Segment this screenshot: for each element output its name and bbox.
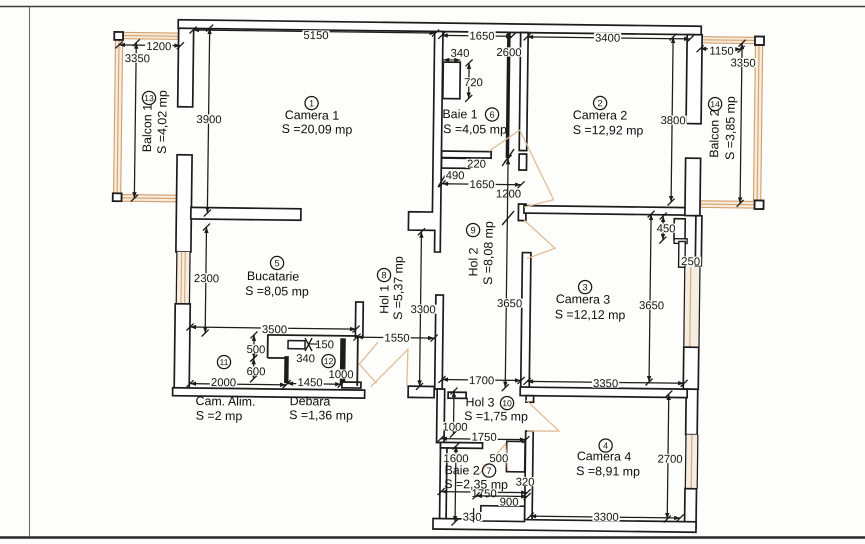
svg-text:Camera 3: Camera 3 bbox=[556, 292, 611, 307]
circled number 3 (Camera 3) bbox=[578, 280, 591, 293]
svg-text:Camera 1: Camera 1 bbox=[285, 108, 340, 123]
dimension 1650 Hol 2 bbox=[442, 183, 521, 186]
svg-text:3350: 3350 bbox=[125, 53, 150, 65]
balcony 2 right rail bbox=[753, 44, 764, 201]
svg-text:1150: 1150 bbox=[709, 45, 733, 57]
dimension 900 Baie 2 bbox=[476, 495, 527, 498]
circled number 7 (Baie 2) bbox=[482, 464, 495, 477]
page border top bbox=[0, 6, 865, 8]
svg-text:Camera 2: Camera 2 bbox=[573, 108, 628, 123]
dimension 3800 Camera 2 bbox=[671, 37, 673, 202]
svg-text:Cam. Alim.: Cam. Alim. bbox=[195, 394, 255, 409]
svg-text:S =20,09 mp: S =20,09 mp bbox=[282, 122, 353, 137]
svg-text:7: 7 bbox=[486, 466, 491, 476]
svg-text:3500: 3500 bbox=[262, 324, 287, 336]
svg-text:3300: 3300 bbox=[593, 511, 618, 523]
svg-text:S =8,08 mp: S =8,08 mp bbox=[481, 221, 496, 285]
dimension 600 Debara bbox=[253, 358, 255, 379]
wall east exterior upper 2 (below balcony door) bbox=[685, 158, 701, 216]
svg-text:3900: 3900 bbox=[196, 114, 221, 126]
dimension 1750 Baie 2 top bbox=[441, 439, 526, 440]
svg-text:Hol 2: Hol 2 bbox=[466, 247, 480, 276]
fixture WC (Baie 2) bbox=[506, 441, 525, 472]
dimension label 320 Baie 2 bbox=[515, 477, 536, 486]
svg-text:Baie 2: Baie 2 bbox=[444, 463, 479, 477]
wall Baie 2 top bbox=[440, 442, 482, 448]
wall Camera 2 left stub bbox=[519, 154, 527, 170]
svg-text:1200: 1200 bbox=[496, 188, 521, 200]
svg-text:2000: 2000 bbox=[211, 377, 236, 389]
svg-text:1550: 1550 bbox=[384, 332, 409, 344]
dimension 1650 Baie 1 bbox=[442, 34, 512, 37]
svg-text:Balcon 1: Balcon 1 bbox=[140, 104, 155, 152]
wall Hol 1 / Hol 2 divider bbox=[435, 295, 444, 389]
svg-text:250: 250 bbox=[681, 256, 700, 268]
dimension 1200 balcony 1 bbox=[119, 44, 181, 47]
svg-text:Hol 3: Hol 3 bbox=[465, 395, 494, 409]
svg-text:Debara: Debara bbox=[290, 394, 331, 409]
wall Baie 1 right (thin) bbox=[506, 32, 511, 158]
circled number 6 (Baie 1) bbox=[485, 108, 498, 121]
door swing Baie 2 bbox=[479, 444, 508, 475]
svg-text:Hol 1: Hol 1 bbox=[377, 285, 391, 314]
svg-text:6: 6 bbox=[489, 110, 494, 120]
dimension 3500 Bucatarie bbox=[190, 327, 356, 329]
dimension label 500 Baie 2 bbox=[488, 453, 509, 462]
svg-text:330: 330 bbox=[463, 512, 482, 524]
svg-text:500: 500 bbox=[246, 344, 265, 356]
wall Baie 1 ledge (490) bbox=[441, 158, 469, 168]
balcony 1 bottom rail bbox=[121, 194, 181, 203]
dimension 3400 Camera 2 bbox=[527, 37, 690, 39]
dimension 1700 Hol 3 bbox=[442, 378, 521, 381]
dim 340 tick line bbox=[443, 59, 460, 61]
wall east exterior upper (Camera 2) bbox=[686, 35, 702, 124]
circled number 14 (Balcon 2) bbox=[708, 97, 721, 110]
dim 330 tick bbox=[472, 508, 474, 523]
dimension label 330 Baie 2 bbox=[462, 512, 483, 521]
door swing entrance leaf 2 bbox=[371, 349, 408, 387]
dimension 1000 Hol 3 bbox=[452, 391, 455, 434]
wall Camera 3 bottom / Camera 4 top bbox=[520, 387, 687, 398]
svg-text:5: 5 bbox=[274, 258, 279, 268]
dimension 1600 Baie 2 bbox=[454, 446, 457, 522]
svg-text:220: 220 bbox=[467, 158, 486, 170]
wall east (Camera 3 lower) bbox=[683, 347, 699, 389]
circled number 8 (Hol 1) bbox=[377, 268, 390, 281]
svg-text:3800: 3800 bbox=[660, 115, 685, 127]
wall east thin (beside shafts) bbox=[695, 216, 702, 266]
svg-text:Bucatarie: Bucatarie bbox=[247, 269, 300, 284]
dimension 3350 balcony 1 bbox=[134, 43, 136, 199]
svg-text:900: 900 bbox=[500, 497, 519, 509]
wall Hol 3 left bbox=[437, 389, 445, 443]
svg-text:Baie 1: Baie 1 bbox=[442, 107, 477, 121]
wall Hol 3 top left piece bbox=[448, 392, 466, 398]
door swing Camera 2 bbox=[519, 130, 555, 207]
wall Debara right bbox=[340, 338, 346, 384]
balcony 1 left rail bbox=[113, 39, 123, 194]
window east (Camera 4) bbox=[685, 435, 698, 489]
circled number 10 (Hol 3) bbox=[500, 396, 513, 409]
svg-text:3350: 3350 bbox=[593, 378, 618, 390]
dimension 3650 Camera 3 bbox=[649, 214, 651, 382]
svg-text:13: 13 bbox=[144, 93, 154, 103]
wall Bucatarie east piece (vestibule) bbox=[355, 302, 363, 337]
svg-text:S =1,36 mp: S =1,36 mp bbox=[289, 408, 353, 423]
svg-text:1000: 1000 bbox=[442, 421, 467, 433]
dim 150 arrow line bbox=[309, 343, 318, 345]
svg-text:600: 600 bbox=[246, 366, 265, 378]
svg-text:S =1,75 mp: S =1,75 mp bbox=[464, 409, 528, 424]
wall Baie 2 left bbox=[440, 443, 448, 524]
dimension label 250 duct bbox=[680, 256, 701, 265]
wall Camera 3 left bbox=[521, 253, 531, 388]
wall Camera 4 left upper stub bbox=[526, 396, 534, 403]
fixture bathtub (Baie 2) bbox=[481, 506, 525, 522]
dimension 2300 Bucatarie bbox=[205, 227, 206, 333]
wall Baie 1 bottom bbox=[442, 151, 492, 158]
circled number 2 (Camera 2) bbox=[593, 96, 606, 109]
wall vestibule left jamb (thin) bbox=[356, 336, 359, 386]
svg-text:S =5,37 mp: S =5,37 mp bbox=[391, 256, 406, 320]
svg-text:490: 490 bbox=[446, 170, 465, 182]
circled number 11 (Cam. Alim.) bbox=[217, 355, 230, 368]
svg-text:320: 320 bbox=[516, 477, 535, 489]
balcony 2 corner post top bbox=[755, 36, 764, 45]
svg-text:11: 11 bbox=[219, 357, 228, 367]
page border bottom bbox=[0, 536, 865, 538]
balcony 1 corner post top bbox=[114, 32, 123, 40]
door tick X (Debara) bbox=[305, 338, 312, 351]
window west (Bucatarie) bbox=[176, 252, 190, 304]
window east (Camera 3) bbox=[684, 267, 700, 347]
dimension 3650 Hol 2 bbox=[505, 158, 508, 387]
svg-text:340: 340 bbox=[450, 48, 469, 60]
dimension 1550 vestibule bbox=[357, 336, 434, 339]
wall west upper (Camera 1, balcony side) bbox=[178, 28, 194, 107]
wall Camera 2 left upper bbox=[519, 33, 528, 151]
balcony 2 corner post bottom bbox=[755, 200, 764, 209]
svg-text:2300: 2300 bbox=[194, 273, 219, 285]
dimension 3300 Hol 1 bbox=[420, 232, 422, 387]
circled number 12 (Debara) bbox=[322, 354, 335, 367]
dimension 500 Debara bbox=[253, 335, 255, 358]
fixture duct (250) bbox=[679, 241, 686, 267]
wall Debara left (thin) bbox=[267, 335, 269, 358]
dimension 5150 Camera 1 bbox=[193, 30, 436, 33]
svg-text:14: 14 bbox=[710, 99, 720, 109]
svg-text:Camera 4: Camera 4 bbox=[577, 449, 632, 464]
wall Debara top (thin) bbox=[267, 335, 358, 336]
svg-text:S =12,92 mp: S =12,92 mp bbox=[573, 123, 644, 138]
wall east (Camera 4 lower) bbox=[685, 489, 697, 528]
svg-text:1650: 1650 bbox=[469, 30, 494, 42]
door swing Baie 1 bbox=[489, 130, 520, 152]
circled number 5 (Bucatarie) bbox=[270, 256, 283, 269]
wall Debara left step bbox=[284, 356, 289, 383]
svg-text:8: 8 bbox=[381, 270, 386, 280]
svg-text:2600: 2600 bbox=[496, 47, 521, 59]
svg-text:3400: 3400 bbox=[595, 32, 620, 44]
svg-text:S =4,05 mp: S =4,05 mp bbox=[443, 122, 507, 137]
dimension label 220 bbox=[466, 159, 487, 168]
wall vestibule ledge bbox=[342, 382, 361, 388]
dimension 450 shaft bbox=[662, 216, 664, 240]
wall south (Baie 2 / Camera 4) bbox=[433, 518, 696, 532]
fixture shaft A (right of Camera 2) bbox=[674, 219, 685, 240]
svg-text:1700: 1700 bbox=[469, 375, 494, 387]
wall west mid (Camera 1 / Bucatarie) bbox=[176, 155, 192, 252]
svg-text:2: 2 bbox=[597, 98, 602, 108]
svg-text:S =3,85 mp: S =3,85 mp bbox=[723, 96, 738, 160]
svg-text:S =4,02 mp: S =4,02 mp bbox=[155, 90, 170, 154]
dimension 2000 Cam. Alim. bbox=[190, 384, 286, 385]
circled number 13 (Balcon 1) bbox=[142, 91, 155, 104]
dimension label 1200 Hol 2 bbox=[495, 189, 522, 199]
svg-text:3: 3 bbox=[582, 282, 587, 292]
dimension label 340 Baie 1 bbox=[449, 48, 470, 57]
circled number 9 (Hol 2) bbox=[466, 223, 479, 236]
dimension 1450 Debara bbox=[287, 383, 341, 386]
dimension label 2600 Hol 2 top bbox=[495, 47, 522, 57]
balcony 2 top rail bbox=[703, 36, 764, 44]
svg-text:3650: 3650 bbox=[639, 300, 664, 312]
svg-text:1: 1 bbox=[309, 98, 314, 108]
svg-text:1200: 1200 bbox=[146, 41, 171, 53]
svg-text:1750: 1750 bbox=[471, 432, 496, 444]
svg-text:500: 500 bbox=[489, 453, 508, 465]
wall north exterior bbox=[178, 20, 701, 35]
svg-text:340: 340 bbox=[296, 353, 315, 365]
wall Camera 4 left / Baie 2 right bbox=[525, 431, 534, 520]
svg-text:3300: 3300 bbox=[410, 304, 435, 316]
svg-text:5150: 5150 bbox=[303, 30, 328, 42]
door tick Hol 2 upper bbox=[502, 149, 514, 166]
wall divider Camera 1 / Bucatarie bbox=[191, 207, 301, 220]
page border left bbox=[29, 7, 31, 538]
svg-text:1450: 1450 bbox=[297, 377, 322, 389]
svg-text:2700: 2700 bbox=[657, 453, 682, 465]
svg-text:Balcon 2: Balcon 2 bbox=[707, 109, 722, 157]
svg-text:1650: 1650 bbox=[469, 179, 494, 191]
fixture shaft Baie 1 bbox=[443, 62, 460, 99]
wall Camera 2 bottom / Hol 2 top bbox=[524, 206, 688, 216]
wall south (Cam. Alim. / Debara) bbox=[173, 388, 365, 398]
dimension label 150 Debara bbox=[314, 339, 335, 348]
wall Debara step (thin) bbox=[268, 357, 287, 359]
dimension label 1000 Debara bbox=[327, 369, 354, 379]
svg-text:3650: 3650 bbox=[497, 298, 522, 310]
svg-text:720: 720 bbox=[464, 77, 483, 89]
svg-text:S =2 mp: S =2 mp bbox=[196, 409, 243, 424]
wall Camera 1 right / Baie 1 left (with Hol 1 notch) bbox=[408, 31, 443, 252]
fixture Debara shelf bbox=[288, 341, 305, 349]
svg-text:S =12,12 mp: S =12,12 mp bbox=[555, 307, 626, 322]
balcony 2 bottom rail bbox=[700, 200, 763, 209]
svg-text:150: 150 bbox=[315, 339, 334, 351]
dimension 1750 Baie 2 mid bbox=[441, 492, 527, 493]
door tick Hol 2 lower bbox=[502, 211, 514, 225]
fixture bar below shaft bbox=[674, 239, 687, 244]
balcony 1 corner post bottom bbox=[113, 193, 122, 201]
wall west lower (Cam. Alim.) bbox=[174, 304, 190, 392]
circled number 4 (Camera 4) bbox=[599, 439, 612, 452]
wall Hol 1 bottom (vestibule) bbox=[408, 386, 434, 398]
svg-text:S =8,91 mp: S =8,91 mp bbox=[576, 464, 640, 479]
dimension 3350 Camera 4 top bbox=[527, 381, 684, 383]
dimension 2700 Camera 4 bbox=[667, 394, 669, 519]
door swing Camera 4 bbox=[526, 400, 560, 431]
dimension 3900 Camera 1 bbox=[207, 28, 209, 213]
dimension label 490 bbox=[445, 170, 466, 179]
door tick Baie 1 bbox=[438, 172, 447, 187]
dimension label 340 Debara bbox=[295, 353, 316, 362]
svg-text:S =8,05 mp: S =8,05 mp bbox=[245, 284, 309, 299]
dimension 720 Baie 1 bbox=[468, 63, 470, 99]
circled number 1 (Camera 1) bbox=[305, 96, 318, 109]
dimension 3350 balcony 2 bbox=[740, 43, 742, 203]
dimension 1150 balcony 2 bbox=[700, 48, 741, 51]
svg-text:12: 12 bbox=[324, 356, 334, 366]
door swing Camera 3 bbox=[524, 220, 556, 259]
svg-text:450: 450 bbox=[657, 223, 676, 235]
svg-text:10: 10 bbox=[502, 398, 512, 408]
wall Camera 2 left bottom corner bbox=[518, 204, 526, 221]
svg-text:9: 9 bbox=[470, 225, 475, 235]
svg-text:S =2,35 mp: S =2,35 mp bbox=[444, 477, 508, 492]
svg-text:3350: 3350 bbox=[730, 57, 755, 69]
svg-text:1000: 1000 bbox=[328, 369, 353, 381]
wall east (Camera 4 upper) bbox=[686, 389, 698, 435]
door swing entrance leaf 1 bbox=[359, 342, 378, 383]
dimension 3300 Camera 4 bottom bbox=[530, 516, 680, 518]
balcony 1 top rail bbox=[123, 32, 182, 40]
